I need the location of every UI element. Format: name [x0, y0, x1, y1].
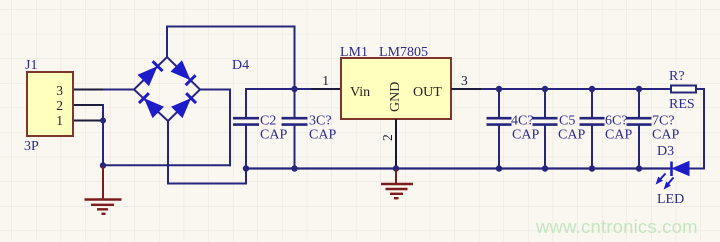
wire resistor to corner — [696, 88, 704, 90]
rail ground net horizontal — [246, 167, 672, 169]
svg-text:C5: C5 — [559, 114, 575, 129]
svg-text:Vin: Vin — [350, 85, 370, 100]
svg-text:CAP: CAP — [605, 128, 632, 143]
wire C2 top stem — [245, 88, 247, 118]
wire J1 pin2 horizontal — [74, 104, 103, 106]
svg-text:6C?: 6C? — [605, 114, 628, 129]
svg-text:2: 2 — [56, 98, 63, 113]
junction regulator ground — [393, 165, 399, 171]
svg-text:LM1: LM1 — [340, 45, 368, 60]
diode D4 top-right — [172, 62, 196, 86]
junction C4 bottom — [496, 165, 502, 171]
LED D3 emission arrow 2 — [665, 178, 674, 189]
capacitor C2 — [233, 118, 259, 168]
wire LED anode — [689, 168, 705, 170]
ground symbol left — [85, 166, 122, 214]
junction Vin node — [291, 86, 297, 92]
svg-text:RES: RES — [669, 97, 695, 112]
LED D3 — [672, 162, 690, 177]
svg-text:2: 2 — [380, 134, 395, 141]
capacitor C3 — [282, 118, 308, 168]
svg-text:CAP: CAP — [558, 128, 585, 143]
wire right vertical — [703, 88, 705, 169]
capacitor C7 — [627, 88, 652, 169]
svg-text:LED: LED — [657, 192, 684, 207]
svg-text:7C?: 7C? — [652, 114, 675, 129]
svg-text:R?: R? — [669, 69, 685, 84]
wire top loop left vertical to bridge top — [166, 26, 168, 58]
wire ground node to bridge right loop — [103, 164, 230, 166]
junction C7 bottom — [636, 165, 642, 171]
resistor R1 body — [671, 86, 696, 93]
wire J1 pin1 horizontal — [74, 120, 103, 122]
regulator pin3 stub — [451, 88, 481, 90]
svg-text:1: 1 — [56, 113, 63, 128]
diode D4 top-left — [139, 61, 163, 85]
junction C4 top — [496, 86, 502, 92]
wire output net from pin3 — [451, 88, 671, 90]
junction ground node A — [100, 162, 106, 168]
svg-text:C2: C2 — [260, 114, 276, 129]
wire J1 pin3 to bridge left vertex — [74, 89, 135, 91]
junction pin1/pin2 tie — [100, 118, 106, 124]
svg-text:CAP: CAP — [652, 128, 679, 143]
svg-text:D4: D4 — [232, 58, 249, 73]
wire top loop horizontal — [167, 26, 295, 28]
svg-text:3P: 3P — [24, 139, 39, 154]
svg-text:CAP: CAP — [512, 128, 539, 143]
junction C6 top — [589, 86, 595, 92]
connector J1 body — [27, 72, 73, 136]
wire bridge right vertex horizontal — [200, 89, 230, 91]
capacitor C5 — [533, 88, 558, 169]
capacitor C6 — [580, 88, 605, 169]
LED D3 emission arrow 1 — [657, 174, 666, 184]
junction C6 bottom — [589, 165, 595, 171]
svg-text:www.cntronics.com: www.cntronics.com — [535, 216, 698, 237]
capacitor C4 — [487, 88, 512, 169]
regulator U1 LM7805 body — [341, 58, 451, 119]
wire regulator pin2 to rail — [395, 119, 397, 169]
svg-text:3C?: 3C? — [309, 114, 332, 129]
regulator pin1 stub — [311, 88, 341, 90]
svg-text:GND: GND — [388, 82, 403, 112]
svg-text:1: 1 — [322, 73, 329, 88]
svg-text:4C?: 4C? — [511, 114, 534, 129]
junction C5 bottom — [542, 165, 548, 171]
svg-text:3: 3 — [461, 73, 468, 88]
junction C3 rail — [291, 165, 297, 171]
diode D4 bottom-right — [172, 93, 196, 117]
svg-text:D3: D3 — [657, 144, 674, 159]
bridge rectifier D4 diamond outline — [134, 57, 200, 121]
ground symbol regulator — [381, 169, 413, 198]
wire top loop right vertical down to Vin node — [294, 26, 296, 90]
junction C5 top — [542, 86, 548, 92]
wire J1 pin2 vertical down to ground node — [102, 104, 104, 166]
junction C7 top — [636, 86, 642, 92]
svg-text:J1: J1 — [25, 58, 37, 73]
svg-text:3: 3 — [56, 83, 63, 98]
wire C3 top stem — [294, 89, 296, 118]
diode D4 bottom-left — [139, 93, 163, 117]
wire riser to rail — [245, 169, 247, 185]
svg-text:LM7805: LM7805 — [379, 45, 428, 60]
wire Vin net horizontal to regulator pin1 — [246, 88, 341, 90]
wire bridge bottom vertex vertical down — [167, 121, 169, 184]
wire bridge bottom link horizontal — [167, 183, 246, 185]
junction C2 rail — [243, 165, 249, 171]
svg-text:CAP: CAP — [260, 128, 287, 143]
svg-text:CAP: CAP — [309, 128, 336, 143]
wire bridge right vertex vertical down — [229, 89, 231, 167]
svg-text:OUT: OUT — [413, 85, 442, 100]
